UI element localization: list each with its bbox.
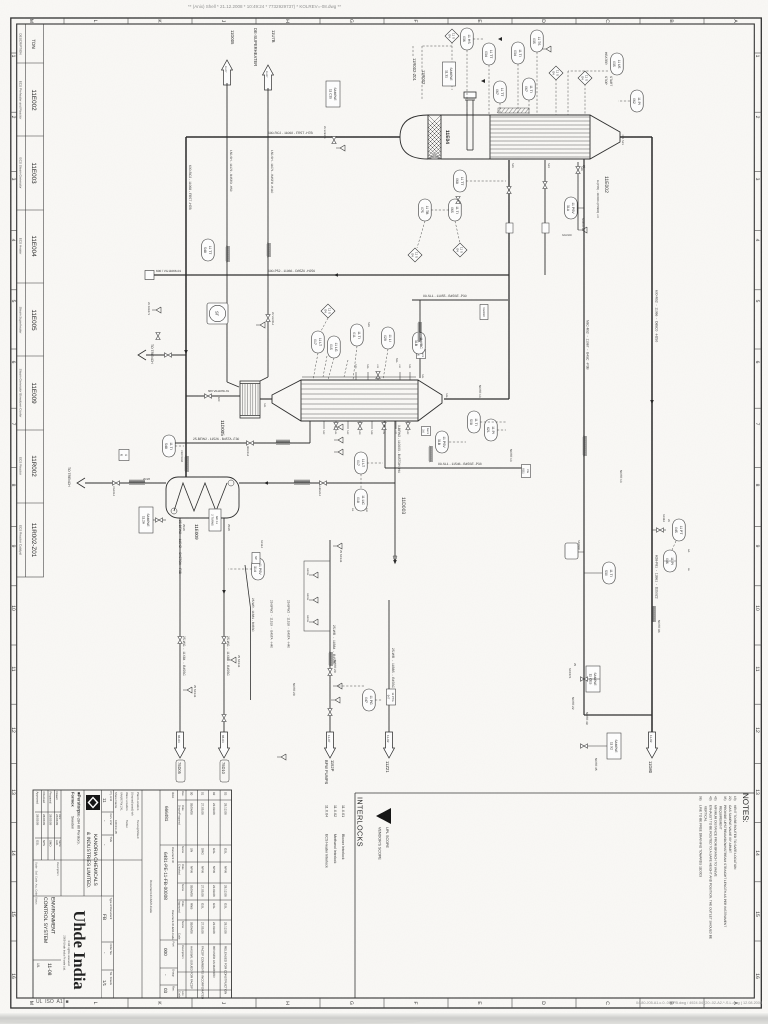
svg-text:ST: ST [215,311,220,317]
svg-text:Ware Location: Ware Location [125,792,129,811]
svg-text:11 TT: 11 TT [489,50,493,59]
flex coil coil x468 [429,446,432,462]
instrument 11LI 029 [382,327,395,349]
svg-text:Approved: Approved [178,901,181,913]
svg-text:VAN/97/W.JXL: VAN/97/W.JXL [120,792,124,811]
svg-text:11-07: 11-07 [327,735,331,743]
vent marker [498,37,502,41]
logic diamond 11X d [408,248,422,262]
logic diamond 11X e [453,243,467,257]
svg-text:2 TURNS: 2 TURNS [211,514,214,526]
svg-text:© All rights reserved: © All rights reserved [67,940,71,966]
svg-text:Tot. Sheets: Tot. Sheets [109,972,112,986]
vessel 11E04 ECS heater [400,115,620,159]
vent funnel funnel n a [334,424,343,430]
wire to 11Z21 [388,600,390,734]
svg-text:RNB: RNB [189,903,193,909]
svg-text:1: 1 [10,55,16,58]
svg-text:SAMPLE: SAMPLE [449,68,453,81]
flow arrow arrow branch [264,481,268,485]
svg-text:017: 017 [356,460,360,466]
svg-text:M: M [28,19,34,23]
wire riser x715 [584,714,652,716]
svg-text:NPS: NPS [42,840,46,846]
svg-text:11Z21: 11Z21 [385,761,390,773]
instrument 11TT 067 [494,81,507,103]
svg-text:0-BFW2 - 110003 - B45TOH -H4: 0-BFW2 - 110003 - B45TOH -H4 [397,425,401,473]
svg-text:11E009: 11E009 [194,524,199,540]
svg-text:B: B [668,19,674,23]
svg-text:1: 1 [754,55,760,58]
instrument 11TS 035 [531,30,544,52]
svg-text:0111: 0111 [522,468,525,474]
svg-text:Name: Name [181,846,184,854]
PT/PI pair on flue header [652,529,666,531]
svg-text:13: 13 [10,789,16,795]
svg-text:Formox: Formox [71,792,76,807]
svg-text:04: 04 [456,248,460,252]
svg-text:MC 11: MC 11 [215,516,218,524]
svg-text:600-RC2 - 11068 - FR5T -H7B: 600-RC2 - 11068 - FR5T -H7B [268,131,313,135]
svg-text:600-P52 - 11066 - D85Z0 -H256: 600-P52 - 11066 - D85Z0 -H256 [268,269,315,273]
svg-text:ABG214: ABG214 [318,486,321,496]
svg-text:N12: N12 [346,430,349,435]
svg-text:666481: 666481 [164,806,169,822]
signal signal rail a [344,360,348,377]
instrument 11TI 034 [512,42,525,64]
svg-text:Name: Name [181,921,184,929]
signal signal drop [422,45,452,47]
svg-text:G: G [348,19,354,23]
svg-text:25-BFW2 - 11518 - B45TA -: 25-BFW2 - 11518 - B45TA -H40 [287,600,291,648]
svg-text:03: 03 [163,988,168,994]
trench arrow 2 [77,478,85,488]
svg-text:SLL: SLL [395,358,399,363]
box sample ces a [586,666,600,692]
svg-text:047: 047 [387,695,390,700]
vent funnel funnel sxe371 b [336,145,345,151]
svg-text:25-BFW2 - 11526 - B45TA -F30: 25-BFW2 - 11526 - B45TA -F30 [193,437,239,441]
flow arrow arrow x275 [334,273,338,277]
wire trench drop 1 [146,354,186,356]
svg-text:11.31: 11.31 [445,70,449,78]
svg-text:E: E [476,19,482,23]
flex coil coil f30 [276,440,290,443]
svg-text:11 PT: 11 PT [679,526,683,535]
vent funnel drain funnel [578,227,587,233]
svg-text:Prepared: Prepared [49,792,53,804]
svg-text:25-WR - 11B84 - B45SC: 25-WR - 11B84 - B45SC [332,625,336,665]
svg-text:NOTE 13: NOTE 13 [478,385,482,398]
valve valve sxe371 c [156,333,160,340]
svg-text:J: J [220,1002,226,1005]
instrument 11TT 548b [202,239,215,261]
svg-text:11D005: 11D005 [230,30,235,45]
flow arrow arrow 75d10 line [222,590,226,594]
svg-text:N25: N25 [511,163,514,168]
svg-text:036: 036 [462,36,466,42]
svg-text:11 PSV: 11 PSV [571,202,575,214]
callout tag on vent line [565,543,584,559]
scanner stamp bottom right [636,1001,762,1005]
svg-text:TO TRENCH: TO TRENCH [67,467,71,487]
off-page flag 75D05 [175,732,186,758]
svg-text:N03: N03 [354,364,357,369]
11E002 nozzle labels [263,364,448,435]
svg-text:N04: N04 [421,374,424,379]
wire vessel 11E04 axis down [186,136,400,138]
flex coil coil y348 [418,322,421,342]
svg-text:11-07: 11-07 [224,66,227,73]
svg-text:045: 045 [674,527,678,533]
wire diagonal branch [245,565,251,700]
svg-text:27.05.08: 27.05.08 [201,803,205,815]
svg-text:11 TT: 11 TT [208,246,212,255]
11E002 nozzle stubs [324,372,410,429]
flex coil coil flue line [652,606,655,622]
svg-text:Steam Generator Blowdown Coole: Steam Generator Blowdown Cooler [19,369,23,418]
svg-text:11-02: 11-02 [386,735,390,743]
svg-text:Rev.: Rev. [181,791,184,797]
instrument 11LT 017 [312,331,325,353]
vessel 11E002 steam generator [272,380,442,421]
svg-text:VGX214: VGX214 [112,486,115,496]
svg-text:000: 000 [163,948,168,956]
wire drain header y259 [508,160,510,399]
instrument 11PSV 314 [252,558,265,580]
instrument 11TT 034 [483,43,496,65]
svg-text:L01: L01 [376,364,379,369]
reference drawings strip [17,24,44,577]
svg-text:SE-284 80 Perstorp,: SE-284 80 Perstorp, [77,812,81,845]
svg-text:11 LG: 11 LG [334,343,338,352]
svg-text:11D80: 11D80 [648,761,653,774]
svg-text:5: 5 [10,300,16,303]
svg-text:15: 15 [754,911,760,917]
vent funnel funnel bfw line [333,543,342,549]
off-page flag DE-SUPERHEATER [263,65,274,90]
svg-text:SX144: SX144 [260,540,263,548]
svg-text:Drawn/Prepared: Drawn/Prepared [178,805,181,825]
svg-text:Name: Name [58,840,61,847]
svg-text:067: 067 [524,86,528,92]
svg-text:22): 22) [728,796,732,801]
vendor scope triangle [376,808,391,824]
svg-text:28/03/09: 28/03/09 [36,814,40,826]
svg-text:25 VGX214: 25 VGX214 [271,312,274,326]
svg-text:04: 04 [552,71,556,75]
svg-text:Plant Location: Plant Location [136,792,140,811]
vent funnel funnel sx144 b [183,687,192,693]
svg-text:11R002: 11R002 [30,455,37,477]
svg-text:7: 7 [10,423,16,426]
svg-text:VG: VG [526,469,529,473]
svg-text:VENT TO BE ROUTED TO SAFE LOCA: VENT TO BE ROUTED TO SAFE LOCATION [733,805,737,870]
svg-text:11 X: 11 X [452,33,456,39]
wire flue gas header to 11D80 [651,137,653,757]
svg-text:9: 9 [754,545,760,548]
svg-text:11 C35: 11 C35 [329,89,333,99]
svg-text:-: - [102,844,107,846]
svg-text:Prj. Unit: Prj. Unit [109,792,112,802]
svg-text:25-BFW2 - 11519 - B45TA -: 25-BFW2 - 11519 - B45TA -H40 [270,600,274,648]
prj unit row [101,792,112,987]
svg-text:02: 02 [212,792,216,796]
vent funnel funnel sx144 a [227,657,236,663]
svg-text:548: 548 [203,247,207,253]
svg-text:11 LI: 11 LI [388,334,392,341]
svg-text:7: 7 [754,423,760,426]
svg-text:065: 065 [450,207,454,213]
svg-text:AH: AH [365,508,368,512]
vent funnel funnel n b [334,437,343,443]
svg-text:25 SX144: 25 SX144 [339,550,343,563]
svg-text:NPW: NPW [189,866,193,873]
svg-text:548: 548 [164,443,168,449]
vent funnel funnel b drain [152,307,161,313]
svg-text:27.05.08: 27.05.08 [201,885,205,897]
svg-text:C: C [604,1001,610,1005]
svg-text:13: 13 [754,789,760,795]
instrument 11LT 017b [355,452,368,474]
wire trench drop 2 [85,482,166,484]
svg-text:11 TI: 11 TI [169,442,173,449]
svg-text:Tester: Tester [125,820,129,828]
svg-text:CONTROL SYSTEM: CONTROL SYSTEM [42,897,48,943]
svg-text:SX214: SX214 [306,615,309,623]
box VG0111 [522,465,531,478]
svg-text:SXE371: SXE371 [581,218,585,229]
wire N26 drain [577,162,579,230]
svg-text:LINE TO BE FREE DRAINING TOWAR: LINE TO BE FREE DRAINING TOWARDS 11D003 [699,805,703,877]
svg-text:Steam Superheater: Steam Superheater [19,307,23,334]
svg-text:017: 017 [313,339,317,345]
svg-text:11 TI: 11 TI [609,569,613,576]
svg-text:062: 062 [632,98,636,104]
svg-text:DESCRIPTION: DESCRIPTION [19,33,23,54]
svg-text:11 TI: 11 TI [529,85,533,92]
svg-text:SXC371: SXC371 [568,668,572,679]
svg-text:D: D [540,1001,546,1005]
svg-text:ECS Steam Generator: ECS Steam Generator [19,158,23,189]
svg-text:05/04/08: 05/04/08 [189,885,193,897]
flex coil coil vent line [583,436,586,456]
svg-text:6481-PE-11-FB-00008: 6481-PE-11-FB-00008 [162,852,168,900]
svg-text:AL: AL [351,508,354,512]
valve sample valve 2a [156,518,163,522]
svg-text:3: 3 [10,178,16,181]
svg-text:075: 075 [420,207,424,213]
svg-text:(Unused/used)-ish: (Unused/used)-ish [131,792,135,816]
vessel 11E009 blowdown cooler [166,477,239,518]
svg-text:A: A [732,19,738,23]
svg-text:ECS Heater Interlock: ECS Heater Interlock [325,834,329,868]
valve sample valve b [581,744,588,748]
svg-text:28.12.08: 28.12.08 [224,803,228,815]
svg-text:Uhde India: Uhde India [70,910,89,989]
signature table [36,792,62,848]
svg-text:Part: Part [172,942,175,947]
flex coil coil trench2 [129,480,145,483]
svg-text:N50/300: N50/300 [562,234,572,237]
instrument 11TI 011 [351,324,364,346]
svg-text:N9C-R52 - 11067 - B45C -P: N9C-R52 - 11067 - B45C -P3B [586,320,590,370]
11E04 heater element [464,92,476,150]
wire to 75D10 [223,518,225,734]
svg-text:11E002: 11E002 [30,89,37,111]
svg-text:11 PI: 11 PI [637,97,641,105]
wire drain N23 [544,160,546,275]
svg-text:Approved: Approved [36,792,40,805]
svg-text:04: 04 [448,34,452,38]
valve valve y223 [543,182,547,189]
description field [35,862,60,976]
wire to N04 [419,300,421,378]
svg-text:N26: N26 [580,166,583,171]
svg-text:314: 314 [253,566,257,572]
wire to 11D003 [394,421,396,560]
svg-text:EXHAUST TO BE ROUTED TO A SAFE: EXHAUST TO BE ROUTED TO A SAFE HEIGHT AN… [709,805,713,939]
svg-text:11.X.01: 11.X.01 [341,805,345,817]
svg-text:Date: Date [181,901,184,907]
svg-text:Tervreij/Shkert: Tervreij/Shkert [136,820,140,839]
svg-text:6: 6 [120,454,124,456]
svg-text:11 TI: 11 TI [518,49,522,56]
svg-text:22.09.08: 22.09.08 [212,922,216,934]
svg-text:TDN: TDN [31,39,36,48]
svg-text:28.12.08: 28.12.08 [224,885,228,897]
svg-text:NOTE 13: NOTE 13 [509,449,513,462]
valve valve trench1 [165,353,172,357]
valves on 11E002 nozzles [406,423,410,430]
svg-text:Rev.: Rev. [172,986,175,992]
svg-text:E: E [476,1001,482,1005]
svg-text:3.6: 3.6 [422,429,425,433]
svg-text:NOTE 20: NOTE 20 [292,683,296,696]
svg-text:015: 015 [329,344,333,350]
svg-text:14: 14 [10,850,16,856]
svg-text:4: 4 [10,239,16,242]
svg-text:REQUIREMENT: REQUIREMENT [718,806,722,830]
svg-text:VRD718M: VRD718M [180,450,183,462]
svg-text:Date: Date [181,864,184,870]
svg-text:SAMPLE: SAMPLE [614,740,618,753]
svg-text:GSL: GSL [201,903,205,909]
box bar box a [417,350,426,359]
instrument 11LG 015 [328,336,341,358]
svg-text:11.2A: 11.2A [142,516,146,525]
svg-text:Document-ID-BAR-Code: Document-ID-BAR-Code [149,880,153,913]
svg-text:8: 8 [754,484,760,487]
svg-text:N14: N14 [334,430,337,435]
svg-text:SX384: SX384 [662,514,665,522]
svg-text:11 PI: 11 PI [491,426,495,434]
svg-text:bar 9: bar 9 [426,428,429,434]
svg-text:16: 16 [10,973,16,979]
svg-text:N09: N09 [358,430,361,435]
svg-text:KOI/91/-05: KOI/91/-05 [114,820,118,834]
svg-text:UAA: UAA [171,792,175,798]
svg-text:22.09.08: 22.09.08 [212,885,216,897]
svg-text:■Perstorp: ■Perstorp [77,792,82,813]
svg-text:N06: N06 [445,393,448,398]
logic diamond 11X 04 a [445,29,459,43]
valve valve 75d05 [178,637,182,644]
svg-text:PROVIDE UPSTREAM/DOWNSTREAM ST: PROVIDE UPSTREAM/DOWNSTREAM STRAIGHT LEN… [723,805,727,927]
svg-text:1152P: 1152P [330,760,335,772]
box sample 11c35 [326,81,340,107]
svg-text:11 TB: 11 TB [425,206,429,215]
valve valve y259 [507,187,511,194]
svg-text:018: 018 [356,497,360,503]
svg-text:11D005: 11D005 [220,420,225,436]
svg-text:Scale Saf. Code Acc. Code: Scale Saf. Code Acc. Code Status [35,862,38,905]
svg-text:-: - [102,952,107,954]
svg-text:11: 11 [102,798,107,803]
svg-text:25/20: 25/20 [227,524,231,531]
svg-text:4: 4 [754,239,760,242]
instrument 11TT 068 [454,170,467,192]
svg-text:11: 11 [754,666,760,671]
svg-text:11R002-Z01: 11R002-Z01 [30,523,37,558]
svg-text:05/04/08: 05/04/08 [189,922,193,934]
valve valve vg11065 [205,394,212,398]
svg-text:GSL: GSL [212,903,216,909]
svg-text:HEATER: HEATER [604,52,608,65]
wire to 11E002 top nozzle [444,398,509,400]
svg-text:11 PTG: 11 PTG [391,692,394,701]
svg-text:ECS Reactor: ECS Reactor [19,457,23,475]
signal signal to 11R002-Z01 [412,46,414,56]
svg-text:TO TRENCH: TO TRENCH [150,344,154,364]
instrument 11PSV 31B [436,431,449,453]
svg-text:Blower Interlock: Blower Interlock [341,834,345,860]
svg-text:Con. Unit: Con. Unit [109,814,112,825]
svg-text:11.X.02: 11.X.02 [333,805,337,817]
svg-text:Checked: Checked [178,864,181,875]
svg-text:N08: N08 [370,430,373,435]
svg-text:600 / VG11066-01: 600 / VG11066-01 [156,269,181,273]
instrument 11PSV 31A [565,197,578,219]
svg-text:600 VG11065-01: 600 VG11065-01 [208,389,230,393]
svg-text:SMD: SMD [49,840,53,846]
svg-text:25 SXE371: 25 SXE371 [323,126,326,139]
logic diamond 11X 04 c [578,71,592,85]
instrument 11TI 065 [449,199,462,221]
svg-text:508: 508 [469,419,473,425]
svg-text:Date: Date [181,805,184,811]
page bottom shadow [0,1013,768,1024]
svg-text:01: 01 [201,792,205,796]
vessel 11D005 blowdown pot [240,381,260,418]
svg-text:F: F [412,19,418,22]
svg-text:NOTE 22: NOTE 22 [571,697,575,710]
instrument 11VBC 31B [413,332,426,354]
wire to BFW pumps [329,540,331,734]
svg-text:11 TT: 11 TT [460,177,464,186]
svg-text:Type of Document: Type of Document [109,898,112,920]
svg-text:067: 067 [495,89,499,95]
svg-text:Code: Code [178,991,181,998]
instrument 11PT 045 [673,519,686,541]
svg-text:HA/S/9/6. ISSUED FOR PACDP: HA/S/9/6. ISSUED FOR PACDP [189,946,193,989]
svg-text:1/1: 1/1 [102,980,107,987]
svg-text:L04: L04 [398,364,401,369]
svg-text:150-SH - 11172 - B45TO -H50: 150-SH - 11172 - B45TO -H50 [229,150,233,192]
svg-text:11 X: 11 X [328,308,332,314]
svg-text:FB: FB [101,914,107,920]
instrument 11TI 067 [523,78,536,100]
